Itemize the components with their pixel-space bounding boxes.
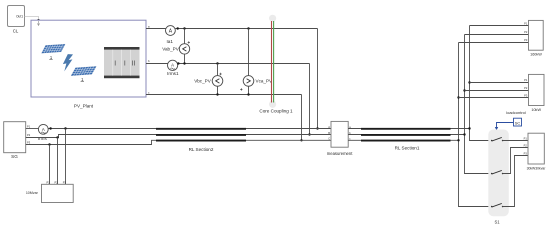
load block 30kW30kvar (524, 133, 547, 170)
controller block SC (514, 118, 522, 126)
node on bus A (64, 127, 66, 129)
node on phase b (177, 62, 179, 64)
svg-text:Out1: Out1 (16, 15, 23, 19)
svg-text:P3: P3 (524, 152, 528, 156)
subsystem PV_Plant (31, 20, 146, 97)
wire to 10kW P3 (459, 97, 529, 99)
node on SG P2 (56, 136, 58, 138)
load block 160kW (524, 20, 543, 56)
svg-text:Vca_PV: Vca_PV (256, 79, 274, 84)
wire CL to PV_Plant trigger (25, 17, 39, 20)
wire to 160kW P3 (459, 42, 529, 44)
wire phase b (146, 63, 168, 65)
svg-text:SC: SC (515, 121, 521, 126)
svg-text:measurement: measurement (327, 151, 353, 156)
wire to 160kW P2 (465, 34, 529, 36)
wire drop to 10Mvar P3 (65, 129, 67, 185)
voltmeter Vbc_PV (194, 64, 223, 95)
node phase c to bus C (300, 139, 302, 141)
wire to 10kW P2 (465, 90, 529, 92)
wire to 160kW P1 (470, 25, 529, 27)
svg-text:P1: P1 (27, 125, 31, 129)
svg-text:P1: P1 (524, 78, 528, 82)
breaker switch 2 (491, 170, 504, 174)
wire drop to 10Mvar P2 (57, 138, 59, 185)
svg-text:RL Section2: RL Section2 (189, 147, 214, 152)
node trigger junction (37, 19, 40, 22)
ammeter Irms (38, 124, 48, 140)
breaker group G1 background (488, 130, 509, 217)
wire drop to 10Mvar P1 (49, 145, 51, 185)
RL Section1 thick line A (361, 128, 451, 130)
RL Section2 thick line A (156, 128, 246, 130)
RL Section1 thick line C (361, 140, 451, 142)
node 10kW tap P3 (457, 96, 459, 98)
node 10kW tap P2 (463, 89, 465, 91)
svg-text:160kW: 160kW (530, 52, 542, 56)
svg-text:10kW: 10kW (531, 108, 541, 112)
feeder vertical V3 (459, 43, 492, 207)
wire SG P2 / bus B (26, 135, 331, 138)
svg-text:A: A (42, 127, 45, 132)
svg-text:P1: P1 (524, 137, 528, 141)
breaker switch 3 (491, 203, 504, 207)
node phase b to bus B (308, 133, 310, 135)
svg-text:P3: P3 (524, 94, 528, 98)
svg-text:S1: S1 (494, 219, 500, 224)
svg-text:30kW30kvar: 30kW30kvar (527, 167, 547, 171)
solar panel icon 2 (71, 66, 96, 81)
solar panel icon 1 (42, 44, 66, 60)
svg-text:P2: P2 (524, 30, 528, 34)
trigger port symbol (37, 21, 39, 26)
node on phase b (216, 62, 218, 64)
svg-text:CL: CL (13, 28, 19, 33)
node on phase a (247, 27, 249, 29)
node bus C end (457, 139, 459, 141)
svg-text:B: B (328, 131, 330, 135)
svg-text:SG: SG (11, 154, 18, 159)
load block 10Mvar (26, 180, 73, 202)
svg-text:PV_Plant: PV_Plant (74, 104, 94, 109)
svg-text:Core Coupling 1: Core Coupling 1 (259, 109, 293, 114)
svg-text:P1: P1 (524, 21, 528, 25)
node phase a to bus A (316, 127, 318, 129)
ammeter Irms1 (167, 60, 179, 76)
svg-text:P2: P2 (55, 180, 59, 184)
wire phase c (146, 94, 302, 96)
generator block SG (4, 122, 31, 159)
svg-text:Ia1: Ia1 (167, 39, 174, 44)
svg-text:Vab_PV: Vab_PV (162, 47, 179, 52)
RL Section2 thick line B (156, 134, 246, 136)
feeder vertical V1 (470, 26, 492, 141)
svg-text:Vbc_PV: Vbc_PV (194, 79, 212, 84)
load block 10kW (524, 74, 544, 112)
node on phase a (177, 27, 179, 29)
voltmeter Vca_PV (240, 29, 273, 95)
core coupling red line (271, 21, 273, 103)
wire SG P3 / bus C (26, 140, 331, 144)
core coupling glow bottom (269, 101, 276, 108)
feeder vertical V2 (465, 35, 492, 174)
bus B right of measurement (348, 134, 464, 136)
svg-text:P2: P2 (524, 86, 528, 90)
bus A right of measurement (348, 128, 469, 130)
wire phase a (146, 28, 166, 30)
svg-text:P2: P2 (524, 144, 528, 148)
svg-text:P2: P2 (27, 133, 31, 137)
lightning bolt (63, 54, 73, 71)
breaker switch 1 (491, 137, 528, 141)
core coupling glow top (269, 15, 276, 22)
svg-text:C: C (328, 136, 330, 140)
svg-text:10Mvar: 10Mvar (26, 191, 39, 195)
node on SG P3 (48, 143, 50, 145)
node on phase a (183, 27, 185, 29)
node on phase b (183, 62, 185, 64)
svg-text:RL Section1: RL Section1 (395, 145, 420, 150)
core coupling green line (273, 21, 275, 103)
svg-text:P1: P1 (47, 180, 51, 184)
svg-text:Irms: Irms (38, 136, 48, 141)
node on phase c (247, 93, 249, 95)
svg-text:loadcontrol: loadcontrol (506, 110, 526, 115)
node bus A end (468, 127, 470, 129)
voltmeter Vab_PV (162, 29, 190, 64)
node on phase c (216, 93, 218, 95)
inverter cabinet image (104, 47, 140, 78)
control arrow SC to breaker (497, 123, 514, 128)
RL Section1 thick line B (361, 134, 451, 136)
svg-text:P3: P3 (63, 180, 67, 184)
wire switch3 to 30kW P3 (503, 156, 528, 207)
node 10kW tap P1 (468, 81, 470, 83)
ammeter Ia1 (166, 26, 176, 44)
svg-text:P3: P3 (524, 38, 528, 42)
svg-text:Irms1: Irms1 (167, 71, 179, 76)
node on bus A (49, 127, 51, 129)
wire switch2 to 30kW P2 (503, 148, 528, 174)
RL Section2 thick line C (156, 140, 246, 142)
wire SG P1 / bus A (26, 128, 39, 130)
svg-text:A: A (328, 125, 330, 129)
bus C right of measurement (348, 139, 458, 141)
wire to 10kW P1 (470, 82, 529, 84)
node bus B end (463, 133, 465, 135)
block CL (8, 6, 25, 34)
svg-text:A: A (171, 63, 174, 68)
measurement block (327, 121, 353, 156)
